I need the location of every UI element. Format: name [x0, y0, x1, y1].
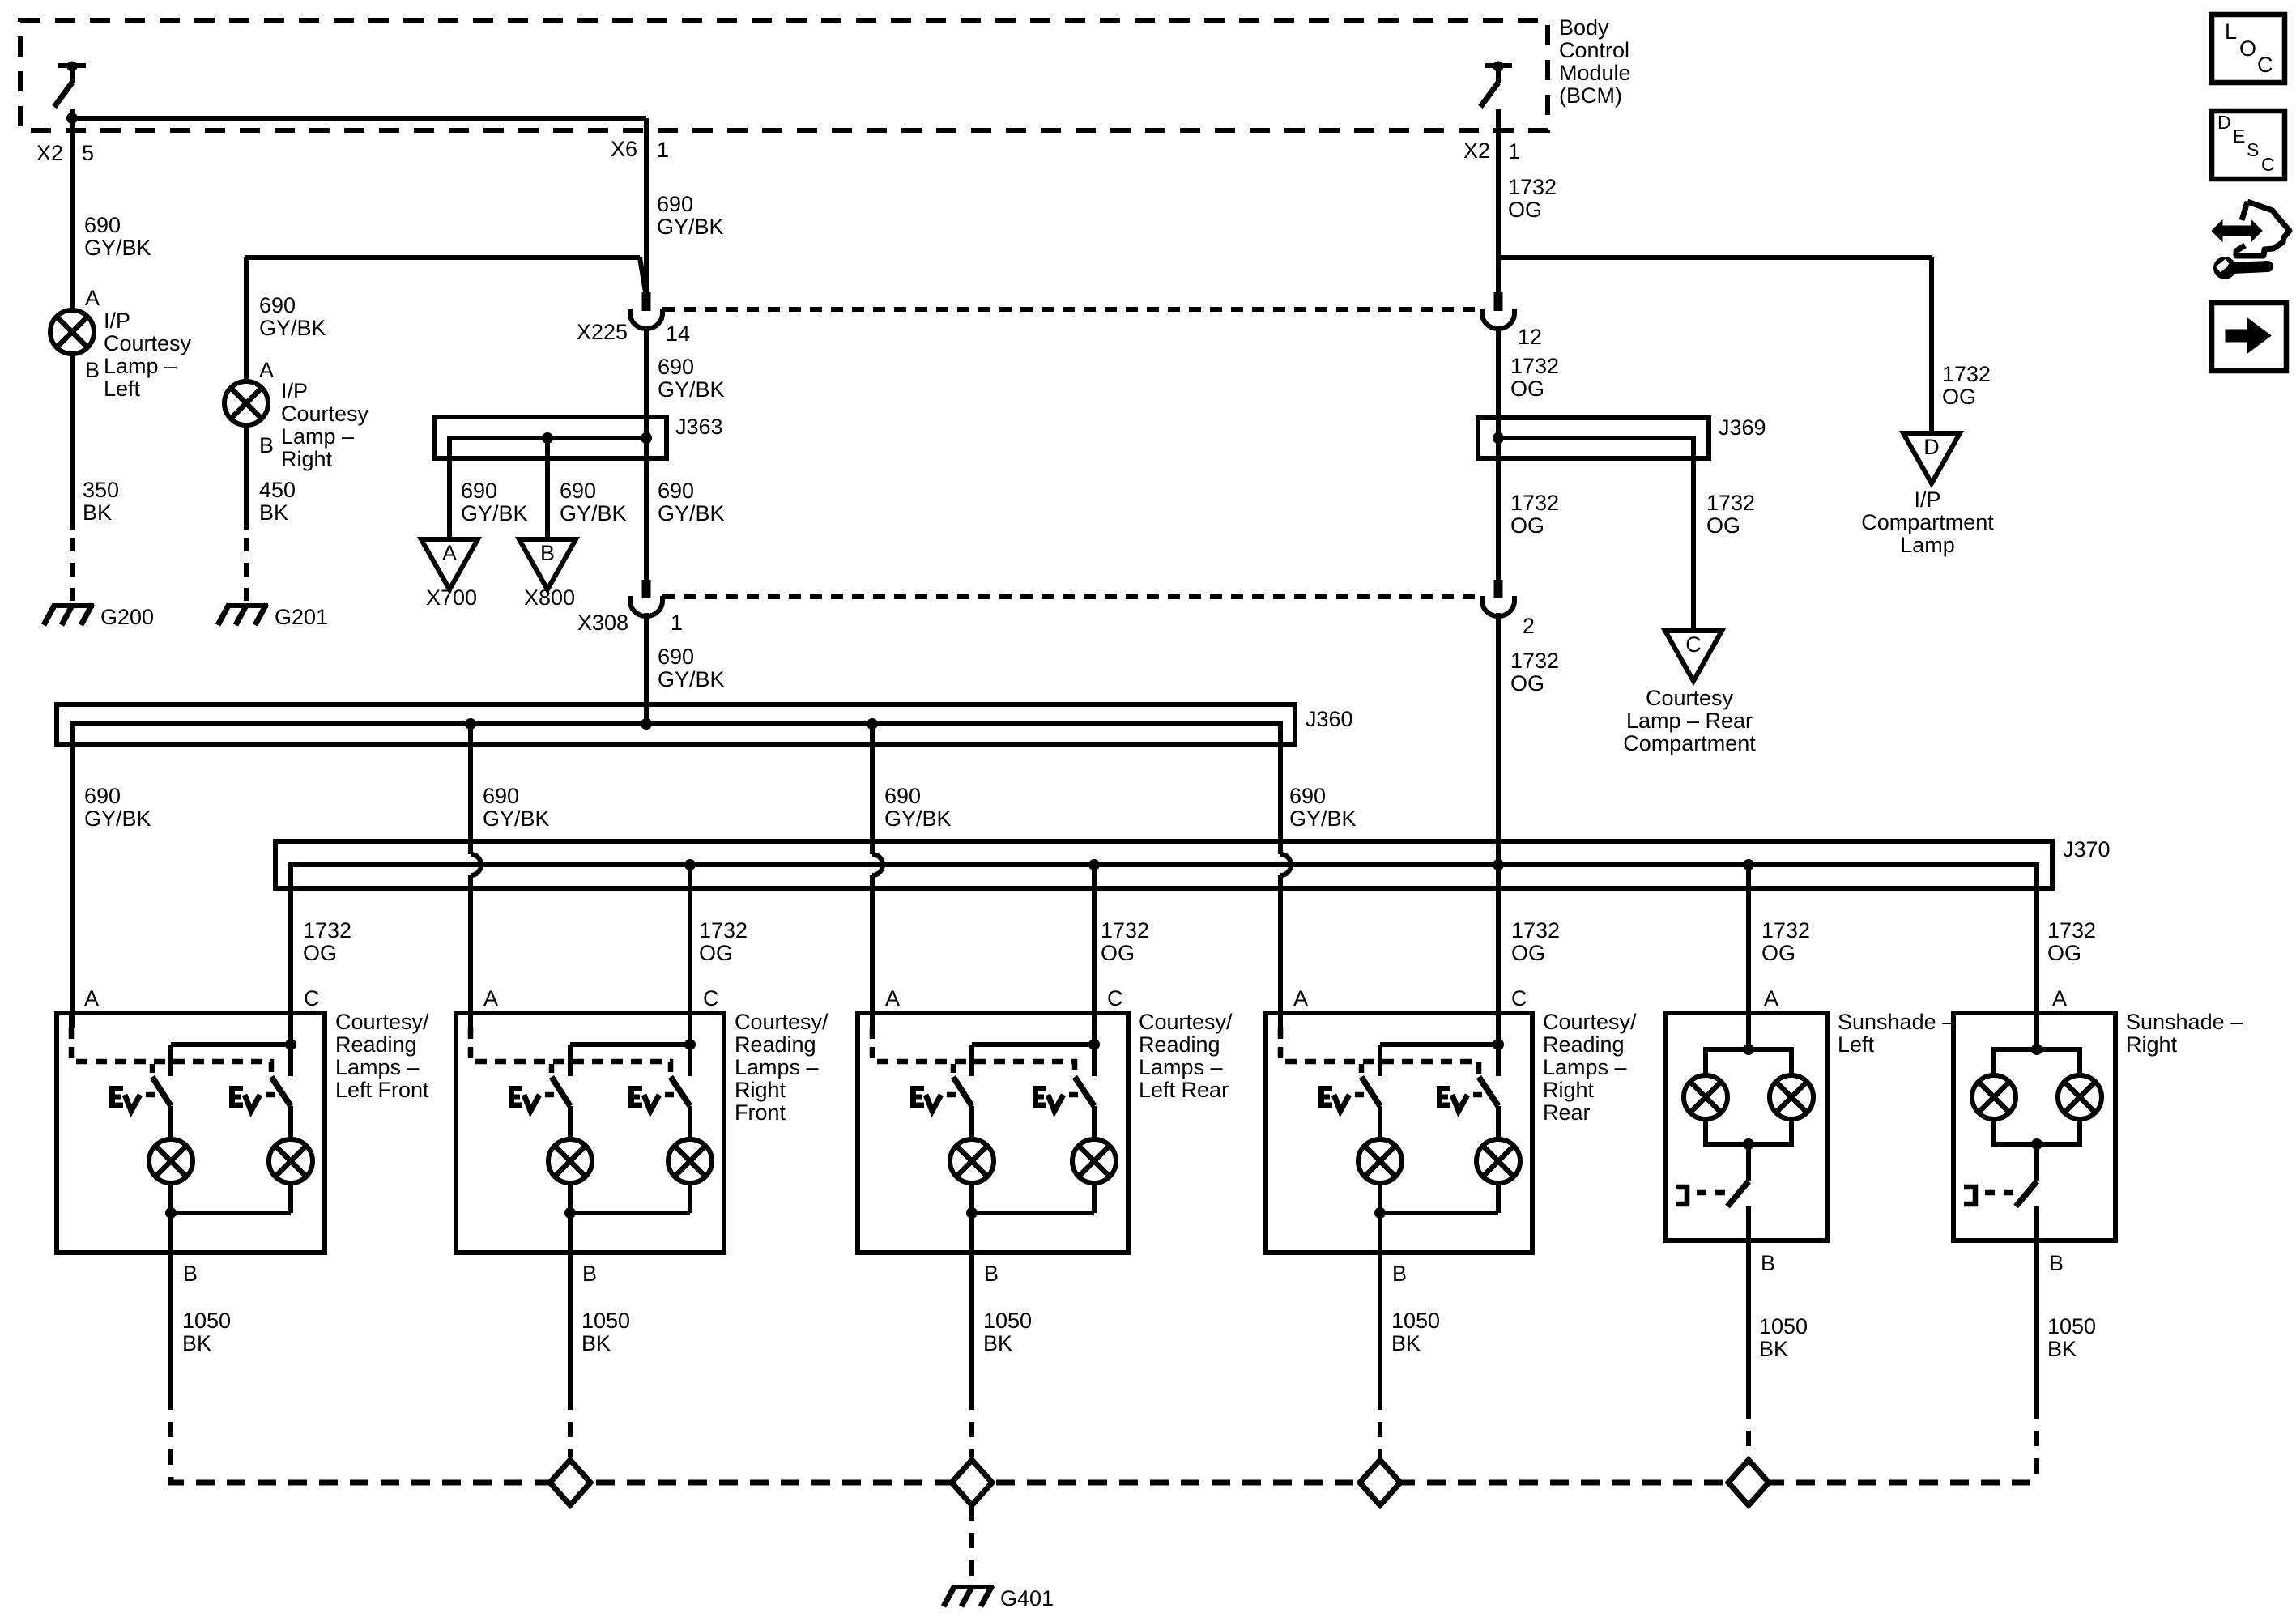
- wire 690 GY/BK through J363: [644, 326, 649, 580]
- svg-text:Left Rear: Left Rear: [1139, 1078, 1229, 1102]
- svg-text:5: 5: [82, 141, 94, 165]
- splice diamond (left rear): [952, 1460, 992, 1505]
- svg-text:Lamps –: Lamps –: [735, 1055, 819, 1079]
- svg-text:B: B: [1761, 1251, 1775, 1275]
- pin B wire 1050 BK (Courtesy/Reading Lamps Right Rear): [1378, 1213, 1382, 1394]
- junction on C (Courtesy/Reading Lamps Left Rear): [1088, 1039, 1100, 1050]
- J363 internal bus: [449, 438, 646, 458]
- svg-text:A: A: [85, 286, 100, 310]
- J360 internal bus: [72, 724, 1280, 744]
- wire to right lamp (Courtesy/Reading Lamps Left Rear): [1092, 1106, 1097, 1139]
- svg-text:S: S: [2247, 139, 2259, 160]
- svg-text:OG: OG: [1510, 513, 1544, 538]
- svg-text:X225: X225: [577, 320, 628, 344]
- bottom junction (Sunshade Right): [2031, 1138, 2043, 1150]
- legend icon: connector service wrench: [2236, 202, 2290, 256]
- dashed wire to G401: [969, 1505, 974, 1583]
- svg-text:Left: Left: [1838, 1032, 1875, 1057]
- left lamp (Courtesy/Reading Lamps Right Front): [548, 1139, 592, 1183]
- svg-text:OG: OG: [1511, 941, 1545, 965]
- wire to left lamp (Courtesy/Reading Lamps Left Front): [168, 1106, 173, 1139]
- internal dashed feed from A (Courtesy/Reading Lamps Right Rear): [1280, 1028, 1479, 1077]
- svg-text:X6: X6: [611, 137, 637, 161]
- wire hop over J370 bus (A4): [1280, 854, 1291, 875]
- J370 junction sunshade left: [1743, 859, 1754, 870]
- svg-text:C: C: [2261, 154, 2275, 175]
- triangle connector D: [1903, 433, 1960, 483]
- svg-text:C: C: [1511, 986, 1527, 1011]
- dashed 1050 BK (left front B): [168, 1394, 173, 1474]
- svg-text:C: C: [1107, 986, 1123, 1011]
- switch blade (Sunshade Left): [1727, 1181, 1749, 1206]
- svg-text:GY/BK: GY/BK: [884, 806, 952, 831]
- connector X308 pin 1: [642, 580, 651, 598]
- connector pin 2: [1494, 580, 1503, 598]
- wire X6-1 down to X225: [644, 118, 649, 292]
- lamp return bus (Courtesy/Reading Lamps Right Rear): [1380, 1211, 1498, 1215]
- ground G401: [952, 1585, 994, 1589]
- svg-text:BK: BK: [1759, 1337, 1788, 1361]
- svg-text:Body: Body: [1559, 15, 1609, 40]
- svg-text:BK: BK: [983, 1331, 1012, 1355]
- left lamp (Sunshade Left): [1684, 1075, 1727, 1119]
- wire branch to I/P courtesy lamp right: [245, 255, 640, 260]
- svg-text:C: C: [1685, 632, 1702, 657]
- svg-text:1: 1: [1508, 139, 1520, 164]
- right lamp (Courtesy/Reading Lamps Right Rear): [1476, 1139, 1520, 1183]
- svg-text:690: 690: [884, 784, 921, 808]
- svg-text:X308: X308: [577, 611, 628, 635]
- J363 junction main: [641, 432, 652, 444]
- parallel lamp bottom (Sunshade Left): [1706, 1119, 1791, 1144]
- svg-text:D: D: [2217, 112, 2231, 133]
- svg-text:1732: 1732: [1706, 491, 1755, 515]
- svg-text:690: 690: [560, 479, 596, 503]
- pin C wire to right switch contact (Courtesy/Reading Lamps Left Front): [288, 1013, 293, 1076]
- pin C wire to right switch contact (Courtesy/Reading Lamps Right Rear): [1496, 1013, 1501, 1076]
- svg-text:I/P: I/P: [281, 379, 308, 403]
- wire to switch (Sunshade Right): [2034, 1144, 2039, 1181]
- parallel lamp top (Sunshade Left): [1706, 1049, 1791, 1075]
- svg-text:Right: Right: [1543, 1078, 1595, 1102]
- parallel lamp top (Sunshade Right): [1994, 1049, 2080, 1075]
- top junction (Sunshade Left): [1743, 1044, 1754, 1055]
- splice pack J370: [275, 841, 2052, 888]
- right lamp (Courtesy/Reading Lamps Left Front): [269, 1139, 313, 1183]
- svg-text:Lamps –: Lamps –: [335, 1055, 420, 1079]
- svg-text:Lamp –: Lamp –: [281, 424, 354, 449]
- wire from left switch to X6-1 inside BCM: [72, 116, 646, 121]
- svg-text:GY/BK: GY/BK: [658, 501, 725, 526]
- svg-text:OG: OG: [1706, 513, 1740, 538]
- svg-text:Right: Right: [2126, 1032, 2178, 1057]
- svg-text:Reading: Reading: [735, 1032, 816, 1057]
- svg-text:GY/BK: GY/BK: [84, 236, 151, 260]
- svg-text:I/P: I/P: [1914, 487, 1940, 512]
- left switch blade (Courtesy/Reading Lamps Right Rear): [1361, 1077, 1380, 1106]
- lamp return bus (Courtesy/Reading Lamps Left Rear): [972, 1211, 1094, 1215]
- switch blade (Sunshade Right): [2016, 1181, 2037, 1206]
- dashed 1050 BK (right front B): [568, 1394, 573, 1457]
- left lamp (Courtesy/Reading Lamps Left Front): [149, 1139, 193, 1183]
- svg-text:Sunshade –: Sunshade –: [1838, 1010, 1954, 1034]
- dashed ground bus: [171, 1477, 2037, 1483]
- svg-text:1732: 1732: [1101, 918, 1149, 943]
- svg-text:B: B: [85, 358, 100, 382]
- right lamp (Courtesy/Reading Lamps Right Front): [668, 1139, 712, 1183]
- legend icon: DESC box: [2212, 111, 2285, 179]
- pin A stub (Courtesy/Reading Lamps Right Front): [468, 1013, 473, 1028]
- legend icon: LOC box: [2212, 15, 2285, 83]
- actuator dashes (Sunshade Left): [1697, 1190, 1727, 1196]
- lamp assembly: Sunshade Right: [1953, 1013, 2115, 1240]
- actuator dashes (Sunshade Right): [1985, 1190, 2015, 1196]
- lamp assembly: Courtesy/Reading Lamps Right Front: [456, 1013, 724, 1253]
- C cross feed (Courtesy/Reading Lamps Left Front): [171, 1042, 291, 1047]
- svg-text:1732: 1732: [1511, 918, 1560, 943]
- internal dashed feed from A (Courtesy/Reading Lamps Left Rear): [872, 1028, 1075, 1077]
- wire 1732 OG J370 to lamps right front C: [688, 865, 692, 1013]
- svg-text:A: A: [1293, 986, 1308, 1011]
- svg-text:GY/BK: GY/BK: [658, 667, 725, 691]
- splice diamond (right front): [550, 1460, 590, 1505]
- svg-text:Left Front: Left Front: [335, 1078, 429, 1102]
- svg-text:Right: Right: [281, 447, 333, 471]
- switch actuator bracket (Sunshade Right): [1964, 1187, 1975, 1204]
- internal dashed feed from A (Courtesy/Reading Lamps Right Front): [471, 1028, 671, 1077]
- svg-text:Reading: Reading: [335, 1032, 417, 1057]
- svg-text:Courtesy: Courtesy: [281, 402, 369, 426]
- svg-text:OG: OG: [1510, 671, 1544, 696]
- svg-text:A: A: [885, 986, 900, 1011]
- svg-text:Reading: Reading: [1139, 1032, 1220, 1057]
- triangle connector A (X700): [421, 539, 478, 589]
- pin C wire to right switch contact (Courtesy/Reading Lamps Left Rear): [1092, 1013, 1097, 1076]
- right lamp (Courtesy/Reading Lamps Left Rear): [1072, 1139, 1116, 1183]
- junction on C (Courtesy/Reading Lamps Right Rear): [1493, 1039, 1504, 1050]
- dashed 1050 BK (sunshade left B): [1746, 1403, 1751, 1457]
- lamp return bus (Courtesy/Reading Lamps Left Front): [171, 1211, 291, 1215]
- triangle connector B (X800): [519, 539, 576, 589]
- svg-text:1732: 1732: [2047, 918, 2096, 943]
- svg-text:690: 690: [658, 479, 694, 503]
- splice pack J363: [434, 417, 667, 458]
- dashed connector line X308-to-2: [662, 594, 1482, 599]
- wire 690 GY/BK down to right lamp: [244, 257, 249, 381]
- pin B wire 1050 BK (Courtesy/Reading Lamps Left Front): [168, 1213, 173, 1394]
- svg-text:Lamp: Lamp: [1900, 533, 1955, 557]
- wire 1732 OG J370 to lamps left rear C: [1092, 865, 1097, 1013]
- svg-text:690: 690: [259, 293, 296, 317]
- svg-text:GY/BK: GY/BK: [84, 806, 151, 831]
- svg-text:1050: 1050: [581, 1308, 630, 1333]
- right switch blade (Courtesy/Reading Lamps Left Front): [271, 1077, 291, 1106]
- svg-text:A: A: [483, 986, 498, 1011]
- pin C wire to right switch contact (Courtesy/Reading Lamps Right Front): [688, 1013, 692, 1076]
- svg-text:X2: X2: [1463, 138, 1490, 163]
- wire continues below J370 hop: [468, 875, 473, 1028]
- left lamp (Courtesy/Reading Lamps Left Rear): [950, 1139, 994, 1183]
- svg-text:B: B: [540, 541, 555, 565]
- J370 internal bus: [291, 865, 2037, 1049]
- wire 1732 OG down to J370 and lamp assembly C: [1496, 613, 1501, 1013]
- svg-text:Front: Front: [735, 1100, 786, 1125]
- J369 junction: [1493, 432, 1504, 444]
- wire to left lamp (Courtesy/Reading Lamps Left Rear): [969, 1106, 974, 1139]
- svg-text:J369: J369: [1719, 415, 1766, 440]
- svg-text:GY/BK: GY/BK: [461, 501, 528, 526]
- lamp return bus (Courtesy/Reading Lamps Right Front): [570, 1211, 690, 1215]
- wire to right lamp (Courtesy/Reading Lamps Left Front): [288, 1106, 293, 1139]
- splice diamond (right rear): [1360, 1460, 1400, 1505]
- svg-text:1050: 1050: [1759, 1314, 1808, 1338]
- svg-text:J360: J360: [1306, 707, 1353, 731]
- svg-text:1732: 1732: [1510, 491, 1559, 515]
- junction on C (Courtesy/Reading Lamps Left Front): [285, 1039, 296, 1050]
- svg-text:1732: 1732: [303, 918, 351, 943]
- right arrow: [2226, 318, 2271, 353]
- svg-text:690: 690: [658, 645, 694, 669]
- svg-text:B: B: [259, 433, 274, 457]
- svg-text:Compartment: Compartment: [1861, 510, 1994, 534]
- svg-text:690: 690: [657, 192, 693, 216]
- C cross feed (Courtesy/Reading Lamps Right Front): [570, 1042, 690, 1047]
- svg-text:1732: 1732: [1510, 649, 1559, 673]
- svg-text:Courtesy: Courtesy: [1646, 686, 1734, 710]
- svg-text:Courtesy/: Courtesy/: [335, 1010, 429, 1034]
- dashed drop to left switch (Courtesy/Reading Lamps Right Rear): [1359, 1064, 1365, 1077]
- svg-text:BK: BK: [83, 500, 112, 525]
- dashed wire to G201: [244, 538, 249, 601]
- bottom junction (Sunshade Left): [1743, 1138, 1754, 1150]
- svg-text:Lamp – Rear: Lamp – Rear: [1626, 709, 1753, 733]
- svg-text:690: 690: [483, 784, 519, 808]
- J360 junction 2: [465, 718, 476, 730]
- svg-text:GY/BK: GY/BK: [657, 215, 724, 239]
- svg-text:G200: G200: [100, 605, 154, 629]
- svg-text:1732: 1732: [1942, 362, 1991, 386]
- J370 junction C2: [684, 859, 696, 870]
- svg-text:Courtesy/: Courtesy/: [1139, 1010, 1233, 1034]
- svg-text:A: A: [1764, 986, 1778, 1011]
- svg-text:Sunshade –: Sunshade –: [2126, 1010, 2243, 1034]
- switch actuator bracket (Sunshade Left): [1676, 1187, 1687, 1204]
- svg-text:OG: OG: [2047, 941, 2081, 965]
- left switch blade (Courtesy/Reading Lamps Left Rear): [953, 1077, 972, 1106]
- left switch blade (Courtesy/Reading Lamps Right Front): [552, 1077, 570, 1106]
- svg-text:X800: X800: [524, 585, 575, 610]
- svg-text:BK: BK: [182, 1331, 211, 1355]
- wire to switch (Sunshade Left): [1746, 1144, 1751, 1181]
- svg-text:I/P: I/P: [104, 309, 130, 333]
- dashed wire to G200: [70, 538, 75, 601]
- junction to pin B (Courtesy/Reading Lamps Right Front): [564, 1207, 576, 1219]
- wire branch to I/P compartment lamp: [1498, 255, 1932, 260]
- BCM internal switch (right, X2-1 output): [1485, 63, 1512, 68]
- parallel lamp bottom (Sunshade Right): [1994, 1119, 2080, 1144]
- svg-text:Lamps –: Lamps –: [1139, 1055, 1223, 1079]
- svg-text:1050: 1050: [2047, 1314, 2096, 1338]
- svg-text:Lamps –: Lamps –: [1543, 1055, 1627, 1079]
- pin A stub (Courtesy/Reading Lamps Left Rear): [870, 1013, 875, 1028]
- top junction (Sunshade Right): [2031, 1044, 2043, 1055]
- svg-text:2: 2: [1523, 614, 1535, 638]
- svg-text:Compartment: Compartment: [1623, 731, 1756, 755]
- svg-text:A: A: [2052, 986, 2067, 1011]
- wire to left lamp (Courtesy/Reading Lamps Right Rear): [1378, 1106, 1382, 1139]
- svg-text:Left: Left: [104, 377, 141, 401]
- pin B wire 1050 BK (Courtesy/Reading Lamps Right Front): [568, 1213, 573, 1394]
- internal dashed feed from A (Courtesy/Reading Lamps Left Front): [71, 1028, 271, 1077]
- svg-text:(BCM): (BCM): [1559, 83, 1622, 108]
- svg-text:Courtesy: Courtesy: [104, 331, 192, 355]
- svg-text:OG: OG: [1101, 941, 1135, 965]
- right switch blade (Courtesy/Reading Lamps Right Rear): [1479, 1077, 1498, 1106]
- branch wire inside J363: [545, 438, 550, 458]
- C cross feed (Courtesy/Reading Lamps Left Rear): [972, 1042, 1094, 1047]
- lamp assembly: Courtesy/Reading Lamps Left Front: [57, 1013, 325, 1253]
- svg-text:X2: X2: [36, 141, 63, 165]
- wire 690 GY/BK J360 to lamps left rear A: [870, 724, 875, 854]
- left switch fixed contact (Courtesy/Reading Lamps Right Rear): [1378, 1045, 1382, 1076]
- wire 690 GY/BK to J360: [644, 613, 649, 724]
- J370 junction C3: [1088, 859, 1100, 870]
- left switch fixed contact (Courtesy/Reading Lamps Left Front): [168, 1045, 173, 1076]
- svg-text:690: 690: [1289, 784, 1326, 808]
- junction on C (Courtesy/Reading Lamps Right Front): [684, 1039, 696, 1050]
- splice pack J360: [57, 704, 1295, 744]
- svg-text:1732: 1732: [1761, 918, 1810, 943]
- svg-text:Lamp –: Lamp –: [104, 354, 177, 378]
- svg-text:Rear: Rear: [1543, 1100, 1591, 1125]
- wire to X800: [545, 458, 550, 539]
- svg-text:450: 450: [259, 478, 296, 502]
- pin A stub (Courtesy/Reading Lamps Right Rear): [1278, 1013, 1283, 1028]
- svg-text:G401: G401: [1000, 1586, 1054, 1611]
- connector pin 12: [1494, 292, 1503, 311]
- svg-text:B: B: [1392, 1262, 1407, 1286]
- C cross feed (Courtesy/Reading Lamps Right Rear): [1380, 1042, 1498, 1047]
- svg-text:12: 12: [1518, 325, 1542, 349]
- svg-text:J370: J370: [2063, 837, 2111, 862]
- right lamp (Sunshade Right): [2058, 1075, 2102, 1119]
- left switch fixed contact (Courtesy/Reading Lamps Right Front): [568, 1045, 573, 1076]
- svg-text:GY/BK: GY/BK: [658, 377, 725, 402]
- svg-text:GY/BK: GY/BK: [483, 806, 550, 831]
- svg-text:OG: OG: [1510, 377, 1544, 401]
- junction to pin B (Courtesy/Reading Lamps Left Front): [165, 1207, 177, 1219]
- svg-text:1732: 1732: [699, 918, 748, 943]
- svg-text:GY/BK: GY/BK: [259, 316, 326, 340]
- wire 450 BK: [244, 425, 249, 530]
- svg-text:Module: Module: [1559, 61, 1631, 85]
- wire hop over J370 bus (A2): [471, 854, 481, 875]
- pin A stub (Courtesy/Reading Lamps Left Front): [69, 1013, 74, 1028]
- jog into X225 terminal: [640, 257, 645, 292]
- wire 1732 OG J370 to sunshade left A: [1746, 865, 1751, 1049]
- dashed drop to left switch (Courtesy/Reading Lamps Left Rear): [951, 1064, 956, 1077]
- wire hop over J370 bus (A3): [872, 854, 883, 875]
- wire 690 GY/BK J360 to lamps left front A: [70, 724, 75, 1028]
- svg-text:1: 1: [657, 138, 669, 162]
- pin B wire 1050 BK (Courtesy/Reading Lamps Left Rear): [969, 1213, 974, 1394]
- J360 junction 3: [867, 718, 878, 730]
- svg-text:A: A: [84, 986, 99, 1011]
- svg-text:1: 1: [671, 611, 683, 635]
- splice pack J369: [1478, 418, 1709, 458]
- svg-text:1050: 1050: [983, 1308, 1032, 1333]
- dashed 1050 BK (right rear B): [1378, 1394, 1382, 1457]
- wire X2-1 down to connector 12: [1496, 109, 1501, 292]
- svg-text:690: 690: [84, 213, 121, 237]
- svg-text:OG: OG: [1761, 941, 1795, 965]
- svg-text:690: 690: [461, 479, 497, 503]
- svg-text:OG: OG: [303, 941, 337, 965]
- svg-text:Courtesy/: Courtesy/: [1543, 1010, 1637, 1034]
- svg-text:B: B: [984, 1262, 999, 1286]
- connector X225 pin 14: [642, 292, 651, 311]
- svg-text:690: 690: [658, 355, 694, 379]
- svg-text:BK: BK: [581, 1331, 611, 1355]
- svg-text:A: A: [442, 541, 457, 565]
- svg-text:Control: Control: [1559, 38, 1629, 62]
- left switch fixed contact (Courtesy/Reading Lamps Left Rear): [969, 1045, 974, 1076]
- right switch blade (Courtesy/Reading Lamps Right Front): [671, 1077, 690, 1106]
- svg-text:B: B: [582, 1262, 597, 1286]
- J363 junction to X800 branch: [542, 432, 553, 444]
- J360 junction feed: [641, 718, 652, 730]
- svg-text:14: 14: [666, 321, 690, 346]
- svg-text:GY/BK: GY/BK: [560, 501, 627, 526]
- svg-text:BK: BK: [2047, 1337, 2077, 1361]
- wire X2-5 down to lamp A: [70, 109, 75, 310]
- svg-text:1732: 1732: [1508, 175, 1557, 199]
- double arrow: [2212, 220, 2262, 241]
- BCM dashed box: [20, 20, 1548, 130]
- svg-text:O: O: [2239, 36, 2256, 61]
- legend icon: arrow box: [2212, 303, 2286, 371]
- wire continues below J370 hop: [1278, 875, 1283, 1028]
- wire to X700: [447, 458, 452, 539]
- svg-text:OG: OG: [1508, 198, 1542, 222]
- wire to right lamp (Courtesy/Reading Lamps Right Front): [688, 1106, 692, 1139]
- svg-text:C: C: [703, 986, 719, 1011]
- svg-text:J363: J363: [675, 415, 723, 439]
- wire continues below J370 hop: [870, 875, 875, 1028]
- svg-text:L: L: [2225, 19, 2237, 44]
- pin B wire 1050 BK (Sunshade Left): [1746, 1206, 1751, 1403]
- wire 1732 OG down to D: [1929, 257, 1934, 433]
- svg-text:OG: OG: [699, 941, 733, 965]
- lamp assembly: Courtesy/Reading Lamps Right Rear: [1266, 1013, 1532, 1253]
- wire to right lamp (Courtesy/Reading Lamps Right Rear): [1496, 1106, 1501, 1139]
- svg-text:C: C: [304, 986, 320, 1011]
- wire 690 GY/BK J360 to lamps right rear A: [1278, 724, 1283, 854]
- dashed connector line X225-to-12: [662, 307, 1482, 312]
- svg-text:Right: Right: [735, 1078, 786, 1102]
- J370 junction C4/feed: [1493, 859, 1504, 870]
- dashed drop to left switch (Courtesy/Reading Lamps Left Front): [150, 1064, 155, 1077]
- junction to pin B (Courtesy/Reading Lamps Left Rear): [966, 1207, 978, 1219]
- svg-text:X700: X700: [426, 585, 477, 610]
- svg-text:B: B: [2049, 1251, 2064, 1275]
- wire 350 BK: [70, 354, 75, 530]
- wire to left lamp (Courtesy/Reading Lamps Right Front): [568, 1106, 573, 1139]
- dashed 1050 BK (left rear B): [969, 1394, 974, 1457]
- lamp assembly: Sunshade Left: [1665, 1013, 1827, 1240]
- right switch blade (Courtesy/Reading Lamps Left Rear): [1075, 1077, 1094, 1106]
- svg-text:1050: 1050: [182, 1308, 231, 1333]
